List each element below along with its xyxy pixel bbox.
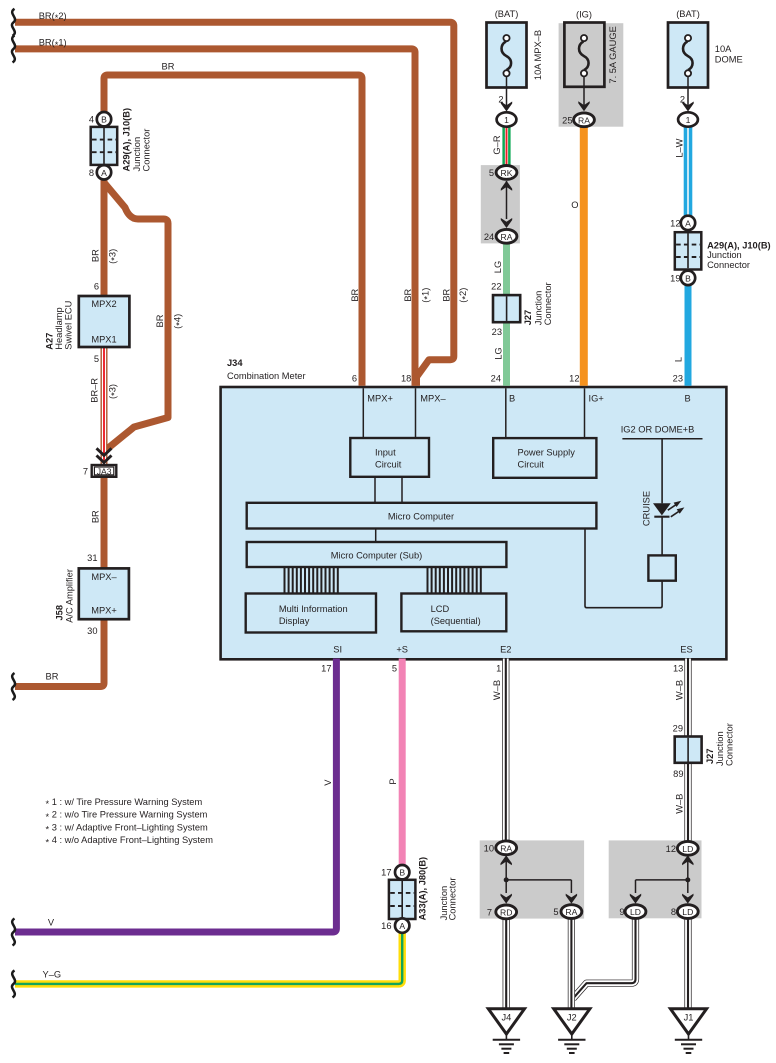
LCD sequential block xyxy=(401,594,506,632)
wire V from pin17 SI to break at left xyxy=(15,659,336,933)
svg-text:BR: BR xyxy=(155,314,165,327)
svg-text:BR: BR xyxy=(441,288,451,301)
svg-text:(BAT): (BAT) xyxy=(676,9,700,19)
svg-text:A: A xyxy=(685,218,691,228)
svg-text:Swivel ECU: Swivel ECU xyxy=(64,301,74,350)
wire pin24 B internal lead xyxy=(505,388,507,438)
svg-text:Y–G: Y–G xyxy=(43,970,62,980)
svg-text:Junction: Junction xyxy=(715,731,725,766)
svg-text:J4: J4 xyxy=(501,1013,511,1023)
svg-text:8: 8 xyxy=(671,907,676,917)
svg-text:9: 9 xyxy=(619,907,624,917)
svg-text:A27: A27 xyxy=(44,333,54,350)
svg-text:LG: LG xyxy=(493,261,503,273)
connector LD9 xyxy=(625,905,646,919)
shield area around 7.5A GAUGE fuse xyxy=(559,23,624,127)
svg-text:A: A xyxy=(101,168,107,178)
wire input circuit to micro computer lead b xyxy=(401,477,403,503)
wire resistor to micro computer xyxy=(585,529,662,608)
fuse 10A MPX-B xyxy=(487,23,527,88)
svg-text:MPX2: MPX2 xyxy=(91,299,116,309)
svg-text:RA: RA xyxy=(565,907,577,917)
wire W-B from pin13 ES through J27 to LD12 xyxy=(684,659,691,843)
wire L-W from connector 1 to junction connector A29 A xyxy=(684,126,693,216)
wire G-R from connector 1 to RK5 xyxy=(502,126,510,167)
wire input circuit to micro computer lead a xyxy=(374,477,376,503)
svg-text:P: P xyxy=(388,778,398,784)
A/C amplifier J58 box xyxy=(79,568,129,619)
svg-text:MPX1: MPX1 xyxy=(91,334,116,344)
connector RA24 xyxy=(496,229,517,243)
svg-text:BR: BR xyxy=(403,288,413,301)
svg-text:23: 23 xyxy=(492,327,502,337)
svg-text:Micro Computer: Micro Computer xyxy=(388,512,454,522)
micro computer block xyxy=(247,503,597,529)
resistor block (square) xyxy=(648,555,675,580)
svg-text:(IG): (IG) xyxy=(576,10,592,20)
svg-text:DOME: DOME xyxy=(715,55,743,65)
svg-text:22: 22 xyxy=(491,281,501,291)
connector RD7 xyxy=(496,905,517,919)
connector LD12 xyxy=(677,841,698,855)
chevron arrows into JA3 xyxy=(97,448,112,462)
svg-text:J27: J27 xyxy=(523,310,533,326)
svg-text:W–B: W–B xyxy=(675,680,685,700)
svg-text:BR–R: BR–R xyxy=(90,378,100,403)
svg-text:Connector: Connector xyxy=(725,723,735,766)
svg-text:17: 17 xyxy=(381,868,391,878)
junction connector A33(A) J80(B) box xyxy=(389,880,416,919)
junction connector J27 bottom box xyxy=(675,737,702,763)
svg-text:B: B xyxy=(685,273,691,283)
svg-text:A29(A), J10(B): A29(A), J10(B) xyxy=(121,108,131,172)
svg-text:17: 17 xyxy=(321,664,331,674)
svg-text:1: 1 xyxy=(504,115,509,125)
svg-text:25: 25 xyxy=(562,116,572,126)
svg-text:MPX–: MPX– xyxy=(91,572,117,582)
svg-text:J2: J2 xyxy=(567,1013,577,1023)
svg-text:LD: LD xyxy=(682,844,693,854)
wire LG from RA24 through J27 to pin24 B xyxy=(503,242,510,386)
headlamp swivel ECU A27 box xyxy=(79,296,130,347)
svg-text:5: 5 xyxy=(489,168,494,178)
svg-text:MPX–: MPX– xyxy=(420,394,446,404)
svg-text:Multi Information: Multi Information xyxy=(279,604,348,614)
wire BR from junction connector A29 B to pin6 MPX+ xyxy=(104,75,362,386)
svg-text:5: 5 xyxy=(553,907,558,917)
pin B circle of A29 left xyxy=(97,112,111,126)
svg-text:(Sequential): (Sequential) xyxy=(431,616,481,626)
shield links RA10 to RD7 and RA5 xyxy=(501,855,578,903)
svg-text:CRUISE: CRUISE xyxy=(642,491,652,526)
svg-text:JA3: JA3 xyxy=(97,466,112,476)
svg-text:SI: SI xyxy=(333,644,342,654)
svg-text:1: 1 xyxy=(496,664,501,674)
svg-text:Connector: Connector xyxy=(707,260,750,270)
input circuit block U-IN xyxy=(350,438,429,477)
svg-text:6: 6 xyxy=(352,373,357,383)
bus hatching to multi information display xyxy=(285,567,338,594)
pin B circle of A29 right xyxy=(681,271,695,285)
svg-text:7: 7 xyxy=(487,907,492,917)
svg-text:ES: ES xyxy=(680,644,692,654)
multi information display block xyxy=(246,594,376,633)
pin A circle of A33 xyxy=(395,918,409,932)
svg-text:Junction: Junction xyxy=(132,137,142,172)
connector 1 below fuse DOME xyxy=(678,112,698,126)
svg-text:LCD: LCD xyxy=(431,604,450,614)
svg-text:E2: E2 xyxy=(500,644,511,654)
wire break symbol at BR bottom left xyxy=(12,673,15,700)
svg-text:A/C Amplifier: A/C Amplifier xyxy=(65,569,75,623)
connector LD8 xyxy=(677,905,698,919)
svg-text:J34: J34 xyxy=(227,358,243,368)
svg-text:L–W: L–W xyxy=(674,138,684,157)
svg-text:1: 1 xyxy=(686,115,691,125)
wire W-B from LD8 to ground J1 xyxy=(684,918,691,1010)
svg-text:IG2 OR DOME+B: IG2 OR DOME+B xyxy=(621,425,695,435)
svg-text:BR: BR xyxy=(46,672,59,682)
svg-text:RA: RA xyxy=(500,843,512,853)
ground symbol J1 xyxy=(670,1009,706,1053)
svg-text:L: L xyxy=(674,357,684,362)
junction connector A29(A) J10(B) right box xyxy=(675,232,702,269)
bus hatching to LCD xyxy=(428,567,481,594)
svg-text:Connector: Connector xyxy=(141,129,151,172)
wire BR from J58 pin30 to break at left xyxy=(15,620,104,687)
shield link RK5 to RA24 xyxy=(501,181,512,228)
svg-text:18: 18 xyxy=(401,373,411,383)
svg-text:(BAT): (BAT) xyxy=(495,9,519,19)
pin B circle of A33 xyxy=(395,865,409,879)
connector RK5 xyxy=(496,166,517,180)
junction connector J27 top box xyxy=(493,295,520,322)
svg-text:W–B: W–B xyxy=(675,794,685,814)
ground symbol J2 xyxy=(554,1009,590,1053)
wire fuse MPX-B pin2 lead xyxy=(506,76,508,108)
svg-text:Micro Computer (Sub): Micro Computer (Sub) xyxy=(331,551,422,561)
svg-text:BR: BR xyxy=(90,249,100,262)
wire W-B from RD7 to ground J4 xyxy=(503,918,510,1010)
svg-text:5: 5 xyxy=(94,354,99,364)
svg-text:2: 2 xyxy=(498,95,503,105)
shield area around connectors RK5/RA24 xyxy=(481,165,520,243)
cruise indicator LED D1 xyxy=(653,501,684,517)
svg-text:Connector: Connector xyxy=(543,282,553,325)
wire IG2 node to cruise LED xyxy=(661,439,663,504)
wire BR from JA3 to J58 pin31 xyxy=(101,477,108,568)
svg-text:B: B xyxy=(399,868,405,878)
wire pin12 IG+ internal lead xyxy=(584,388,586,438)
wire fuse DOME pin2 lead xyxy=(687,76,689,108)
svg-text:Headlamp: Headlamp xyxy=(54,307,64,349)
fuse 7.5A GAUGE xyxy=(564,23,604,87)
svg-text:BR: BR xyxy=(162,62,175,72)
svg-text:19: 19 xyxy=(670,273,680,283)
wire W-B from LD9 joining ground J2 xyxy=(573,918,636,999)
svg-text:10A: 10A xyxy=(715,44,732,54)
svg-text:Circuit: Circuit xyxy=(375,460,402,470)
svg-text:5: 5 xyxy=(392,664,397,674)
svg-text:Junction: Junction xyxy=(707,250,742,260)
svg-text:Display: Display xyxy=(279,616,310,626)
shield area around connectors LD12/LD9/LD8 xyxy=(609,840,702,918)
connector RA10 xyxy=(496,841,517,855)
svg-text:A33(A), J80(B): A33(A), J80(B) xyxy=(417,857,427,921)
svg-text:J58: J58 xyxy=(55,605,65,621)
svg-text:24: 24 xyxy=(491,373,501,383)
wire O from RA25 to pin12 IG+ xyxy=(580,126,588,386)
wire Y-G from junction connector A33 A to break at left xyxy=(15,933,402,984)
svg-text:Input: Input xyxy=(375,448,396,458)
svg-text:IG+: IG+ xyxy=(589,394,604,404)
connector RA5 xyxy=(561,905,582,919)
svg-text:RA: RA xyxy=(578,115,590,125)
svg-text:A29(A), J10(B): A29(A), J10(B) xyxy=(707,240,771,250)
junction connector JA3 xyxy=(92,465,117,477)
pin A circle of A29 left xyxy=(97,165,111,179)
svg-text:O: O xyxy=(571,200,578,210)
svg-text:13: 13 xyxy=(673,664,683,674)
svg-text:+S: +S xyxy=(396,644,408,654)
svg-text:Connector: Connector xyxy=(447,877,457,920)
svg-text:BR: BR xyxy=(91,510,101,523)
wire break symbol at BR(*2) xyxy=(12,9,15,36)
svg-text:G–R: G–R xyxy=(492,135,502,154)
svg-text:4: 4 xyxy=(89,115,94,125)
svg-text:MPX+: MPX+ xyxy=(91,606,117,616)
combination meter J34 outline box xyxy=(221,387,727,659)
svg-text:BR: BR xyxy=(350,288,360,301)
svg-text:23: 23 xyxy=(673,373,683,383)
wire BR-R(*3) from A27 pin5 to JA3 xyxy=(101,348,108,465)
svg-text:89: 89 xyxy=(673,769,683,779)
svg-text:Junction: Junction xyxy=(534,291,544,326)
svg-text:12: 12 xyxy=(666,844,676,854)
svg-text:A: A xyxy=(399,921,405,931)
svg-text:12: 12 xyxy=(569,373,579,383)
svg-text:29: 29 xyxy=(673,723,683,733)
wire BR(*3) from junction connector A29 A to A27 pin6 xyxy=(101,179,108,295)
svg-text:2: 2 xyxy=(680,95,685,105)
wire W-B from pin1 E2 to RA10 xyxy=(502,659,509,843)
ground symbol J4 xyxy=(488,1009,524,1053)
svg-text:LD: LD xyxy=(630,907,641,917)
svg-text:10: 10 xyxy=(484,843,494,853)
svg-text:12: 12 xyxy=(670,218,680,228)
svg-text:J27: J27 xyxy=(705,748,715,764)
wire W-B from RA5 to ground J2 xyxy=(568,918,575,1011)
svg-text:J1: J1 xyxy=(684,1013,694,1023)
wire break symbol at V xyxy=(12,919,15,946)
svg-text:W–B: W–B xyxy=(492,680,502,700)
svg-text:10A MPX–B: 10A MPX–B xyxy=(533,30,543,80)
svg-text:LG: LG xyxy=(494,347,504,359)
svg-text:7. 5A GAUGE: 7. 5A GAUGE xyxy=(608,26,618,83)
wire LED to resistor block xyxy=(661,517,663,556)
svg-text:7: 7 xyxy=(83,466,88,476)
wire fuse GAUGE lead to RA25 xyxy=(583,76,585,108)
svg-text:RD: RD xyxy=(500,907,512,917)
svg-text:LD: LD xyxy=(682,907,693,917)
svg-text:Power Supply: Power Supply xyxy=(518,448,576,458)
svg-text:RK: RK xyxy=(501,168,513,178)
wire BR(*4) branch from A29 A to JA3 xyxy=(104,183,168,450)
svg-text:MPX+: MPX+ xyxy=(367,394,393,404)
power supply circuit block U-PS xyxy=(493,438,596,478)
svg-text:B: B xyxy=(509,394,515,404)
svg-text:30: 30 xyxy=(87,626,97,636)
wire L from junction connector A29 B to pin23 B xyxy=(685,285,692,386)
wire BR(*1) from break to pin18 MPX- xyxy=(15,49,415,386)
junction connector A29(A) J10(B) left box xyxy=(91,127,118,165)
svg-text:8: 8 xyxy=(89,168,94,178)
wire pin6 MPX+ internal lead xyxy=(362,388,364,438)
svg-text:V: V xyxy=(48,918,55,928)
shield area around connectors RA10/RD7/RA5 xyxy=(480,840,584,918)
wire micro computer to micro computer sub lead xyxy=(375,529,377,543)
fuse 10A DOME xyxy=(668,23,708,88)
wire P from pin5 +S to junction connector A33 B xyxy=(399,659,406,866)
connector RA25 below fuse GAUGE xyxy=(574,113,595,127)
pin A circle of A29 right xyxy=(681,216,695,230)
wire pin18 MPX- internal lead xyxy=(415,388,417,438)
svg-text:B: B xyxy=(101,115,107,125)
shield links LD12 to LD9 and LD8 xyxy=(630,855,694,903)
svg-text:RA: RA xyxy=(501,232,513,242)
micro computer sub block xyxy=(247,542,507,567)
svg-text:24: 24 xyxy=(484,232,494,242)
connector 1 below fuse MPX-B xyxy=(497,112,517,126)
svg-text:31: 31 xyxy=(87,553,97,563)
svg-text:Combination Meter: Combination Meter xyxy=(227,371,306,381)
wire break symbol at Y-G xyxy=(12,970,15,997)
svg-text:B: B xyxy=(685,394,691,404)
wire BR(*2) from break to pin18 MPX- xyxy=(15,22,454,386)
wire break symbol at BR(*1) xyxy=(12,35,15,62)
svg-text:Circuit: Circuit xyxy=(518,460,545,470)
svg-text:V: V xyxy=(323,779,333,786)
svg-text:6: 6 xyxy=(94,282,99,292)
svg-text:16: 16 xyxy=(381,921,391,931)
